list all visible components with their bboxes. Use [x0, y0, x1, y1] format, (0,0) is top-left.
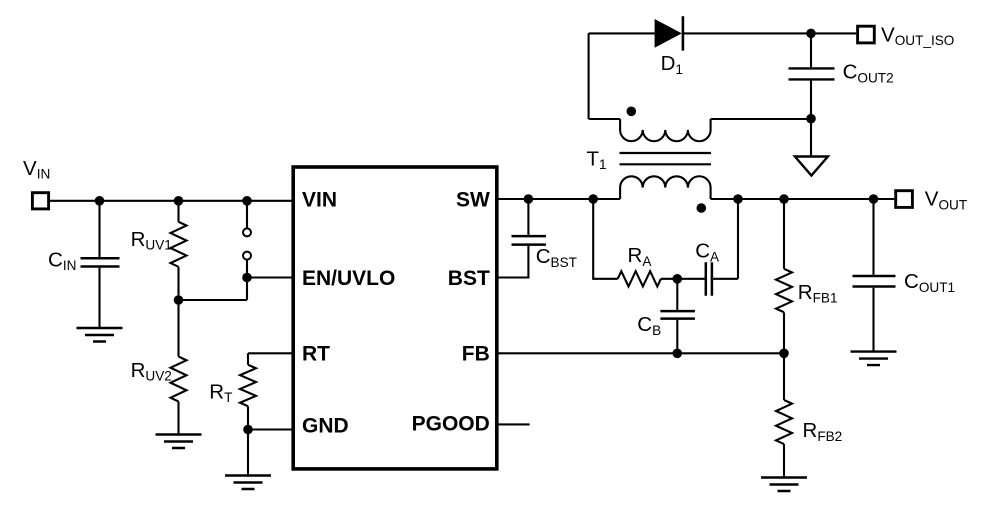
svg-text:RT: RT — [209, 380, 232, 405]
svg-text:RA: RA — [628, 244, 653, 269]
resistor RA — [618, 271, 661, 286]
ground RFB2 — [761, 478, 807, 492]
wire COUT1 bottom — [872, 288, 874, 352]
svg-text:RUV2: RUV2 — [131, 359, 172, 384]
wire FB rail — [497, 352, 784, 354]
transformer T1 phase dot primary — [697, 203, 707, 213]
wire RFB1 top — [783, 199, 785, 269]
wire secondary right — [711, 118, 811, 120]
junction COUT2 top — [806, 29, 816, 39]
diode D1 cathode bar — [682, 16, 685, 50]
svg-text:RFB1: RFB1 — [798, 281, 838, 306]
wire RUV1 bottom — [177, 267, 179, 300]
svg-text:RUV1: RUV1 — [131, 228, 172, 253]
svg-text:VIN: VIN — [302, 189, 337, 212]
svg-text:GND: GND — [302, 415, 349, 438]
transformer T1 core — [620, 153, 712, 164]
wire RFB2 bottom — [783, 444, 785, 478]
ground CIN — [77, 328, 123, 342]
terminal VIN — [32, 193, 48, 209]
capacitor CBST — [512, 236, 547, 245]
junction RUV divider — [174, 295, 184, 305]
junction RFB1 — [779, 194, 789, 204]
svg-text:SW: SW — [456, 189, 490, 212]
junction node CIN — [95, 196, 105, 206]
junction GND — [243, 425, 253, 435]
wire RUV2 top — [177, 300, 179, 357]
wire divider to EN — [179, 260, 248, 300]
capacitor CB — [660, 311, 695, 319]
resistor RFB2 — [776, 400, 792, 444]
wire PGOOD stub — [497, 423, 530, 425]
capacitor COUT1 — [853, 276, 896, 287]
svg-text:RFB2: RFB2 — [803, 419, 843, 444]
iso ground triangle — [795, 157, 828, 176]
contact circle upper — [243, 228, 251, 236]
wire RFB1 bottom — [783, 312, 785, 353]
junction CB FB — [673, 349, 683, 359]
wire BST — [497, 246, 529, 278]
wire GND to IC — [248, 428, 293, 430]
svg-text:CIN: CIN — [48, 248, 76, 273]
svg-text:PGOOD: PGOOD — [412, 413, 490, 436]
resistor RUV2 — [171, 357, 187, 402]
wire CB bottom — [676, 320, 678, 354]
resistor RUV1 — [171, 222, 187, 267]
wire RT bottom — [247, 406, 249, 475]
transformer T1 primary winding — [620, 176, 711, 199]
wire RT to IC — [248, 353, 293, 365]
wire CA right — [713, 199, 738, 279]
junction node RUV1 — [174, 196, 184, 206]
svg-text:BST: BST — [448, 267, 490, 290]
wire COUT1 top — [872, 199, 874, 275]
contact circle lower — [243, 252, 251, 260]
diode D1 — [655, 19, 682, 48]
wire EN column top — [246, 201, 248, 229]
svg-text:VOUT: VOUT — [925, 188, 967, 213]
transformer T1 phase dot secondary — [627, 107, 637, 117]
transformer T1 secondary winding — [620, 119, 711, 141]
svg-text:T1: T1 — [587, 147, 607, 172]
svg-text:CB: CB — [637, 313, 661, 338]
resistor RFB1 — [776, 269, 792, 312]
wire RUV1 top — [177, 201, 179, 222]
terminal VOUT_ISO — [858, 26, 875, 43]
wire secondary left — [589, 33, 621, 119]
svg-text:COUT1: COUT1 — [904, 270, 955, 295]
junction COUT2 bottom — [806, 114, 816, 124]
junction RFB divider — [779, 349, 789, 359]
svg-text:EN/UVLO: EN/UVLO — [302, 267, 395, 290]
wire EN to IC — [247, 276, 293, 278]
svg-text:CA: CA — [695, 240, 720, 265]
svg-text:D1: D1 — [661, 52, 683, 77]
wire SW rail — [497, 198, 895, 200]
capacitor CIN — [81, 258, 120, 266]
wire COUT2 top — [810, 33, 812, 67]
junction COUT1 — [869, 194, 879, 204]
ground RUV2 — [156, 435, 202, 449]
wire COUT2 bottom — [810, 81, 812, 119]
svg-text:CBST: CBST — [536, 245, 577, 270]
wire RUV2 bottom — [177, 402, 179, 435]
wire iso ground — [810, 119, 812, 157]
svg-text:COUT2: COUT2 — [843, 61, 894, 86]
junction RA CA CB — [673, 274, 683, 284]
wire CB top — [676, 279, 678, 310]
junction CBST — [524, 194, 534, 204]
junction EN — [242, 273, 252, 283]
svg-text:RT: RT — [302, 343, 330, 366]
capacitor CA — [706, 262, 712, 296]
wire diode to VOUT_ISO — [683, 32, 856, 34]
wire RFB2 top — [783, 353, 785, 400]
wire diode anode — [589, 32, 655, 34]
capacitor COUT2 — [789, 68, 835, 79]
junction primary left — [588, 194, 598, 204]
wire RA branch — [593, 199, 618, 279]
ground RT — [225, 476, 271, 490]
ground COUT1 — [851, 352, 897, 366]
terminal VOUT — [896, 191, 913, 208]
junction CA right — [733, 194, 743, 204]
junction node EN column — [242, 196, 252, 206]
wire CIN bottom — [98, 268, 100, 328]
wire RA to node — [661, 278, 705, 280]
svg-text:FB: FB — [462, 343, 490, 366]
svg-text:VOUT_ISO: VOUT_ISO — [881, 23, 954, 48]
wire VIN rail — [50, 200, 293, 202]
svg-text:VIN: VIN — [23, 157, 50, 182]
wire CBST top — [527, 199, 529, 235]
wire CIN top — [98, 201, 100, 257]
resistor RT — [240, 365, 256, 406]
IC U1 — [293, 167, 497, 469]
